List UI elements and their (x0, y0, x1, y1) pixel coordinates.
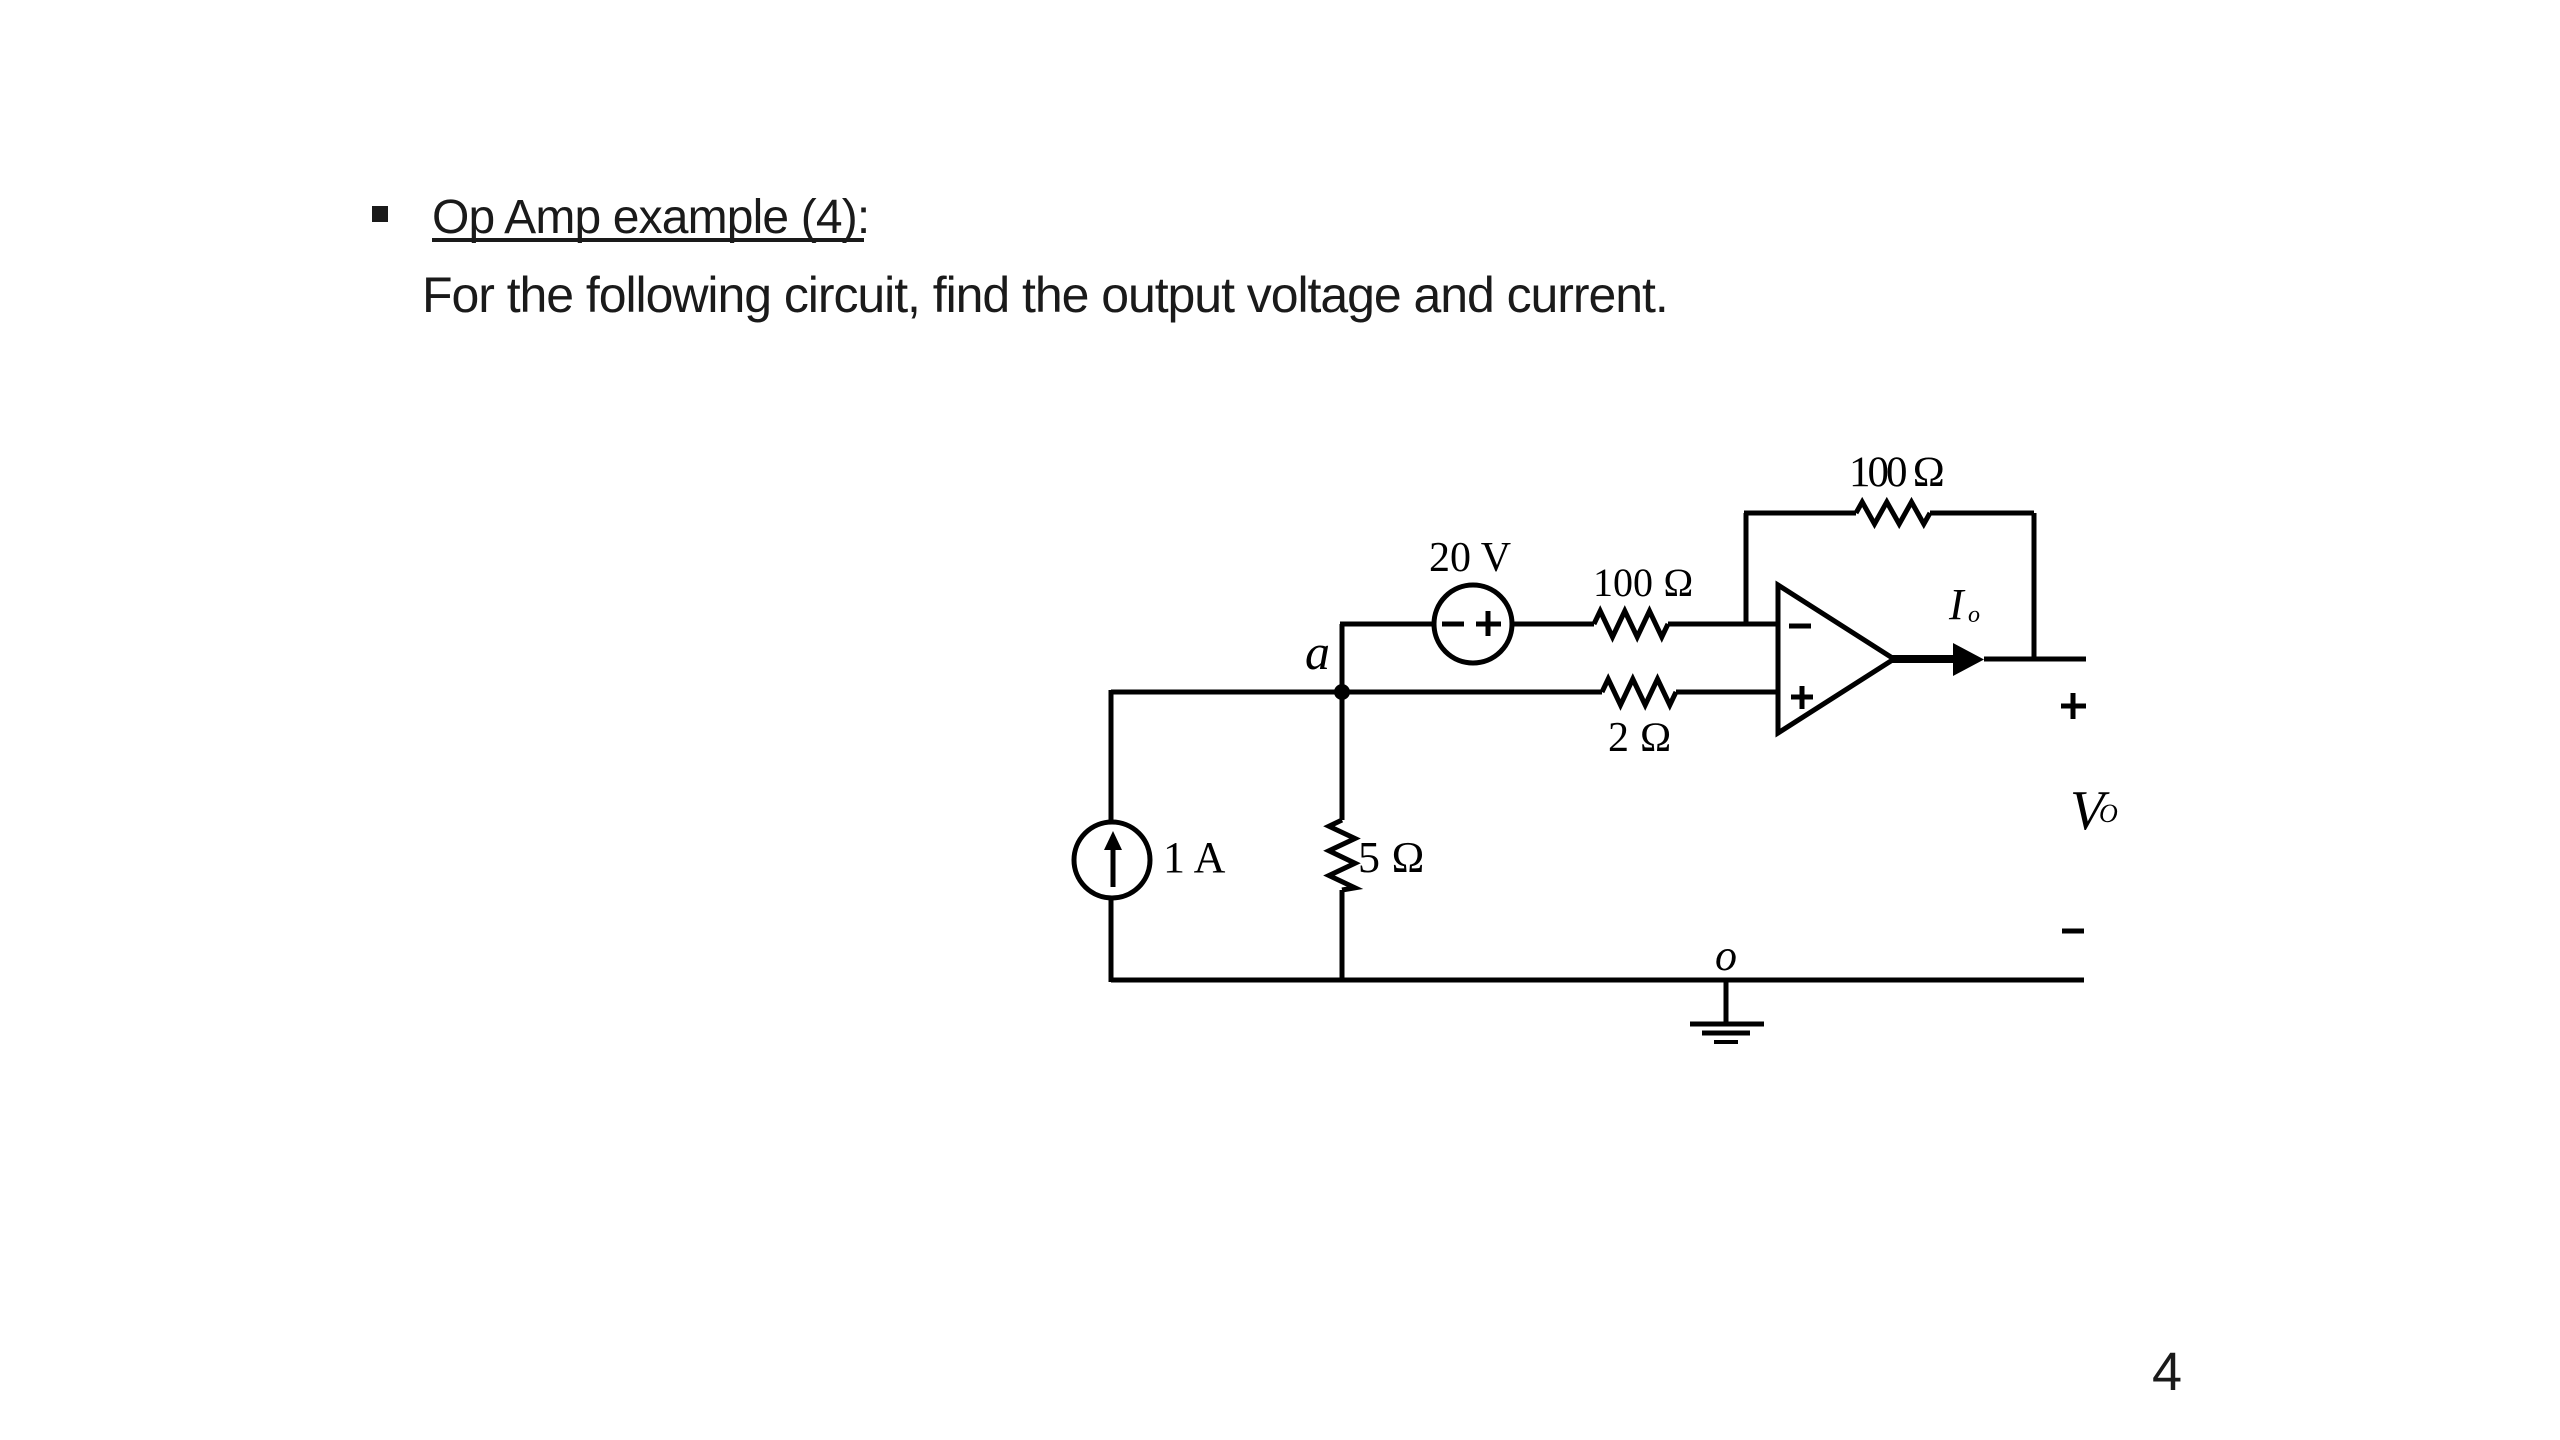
op-amp U1 triangle (1778, 585, 1894, 733)
svg-text:1 A: 1 A (1163, 833, 1226, 882)
voltage source minus sign (1442, 622, 1464, 627)
svg-text:a: a (1305, 624, 1330, 680)
wire: feedback left vertical (1744, 513, 1749, 624)
svg-text:5 Ω: 5 Ω (1358, 833, 1425, 882)
bullet square (372, 206, 388, 222)
wire: left vertical above current source (1109, 690, 1114, 822)
wire: below 5ohm to bottom rail (1340, 890, 1345, 980)
wire: from R2 to op-amp plus input (1676, 690, 1778, 695)
wire: output to right terminal (1984, 657, 2086, 662)
current source arrow (1104, 831, 1122, 887)
svg-text:100 Ω: 100 Ω (1849, 449, 1943, 496)
resistor R4 100ohm feedback zigzag (1856, 502, 1930, 524)
Vo plus terminal sign (2061, 693, 2086, 719)
current source I1 circle (1074, 822, 1150, 898)
body text (422, 270, 1668, 320)
wire: from 20V source to resistor R1 (1512, 622, 1594, 627)
wire: from R1 to op-amp minus input (1668, 622, 1778, 627)
output current arrowhead (1953, 643, 1984, 676)
svg-text:20 V: 20 V (1429, 535, 1511, 581)
ground symbol (1690, 980, 1764, 1042)
wire: feedback top right segment (1930, 511, 2034, 516)
node a junction dot (1334, 684, 1350, 700)
resistor R2 2ohm zigzag (plus input branch) (1602, 679, 1676, 705)
resistor R3 5ohm vertical zigzag (1329, 820, 1355, 890)
wire: feedback right vertical down to output (2032, 513, 2037, 660)
wire: feedback top left segment (1744, 511, 1856, 516)
Vo minus terminal sign (2062, 929, 2084, 934)
wire: top-left horizontal from left branch to node a (1111, 690, 1342, 695)
op-amp minus input sign (1789, 624, 1811, 629)
voltage source plus sign (1476, 611, 1501, 636)
wire: vertical from node a up to minus branch (1340, 624, 1345, 692)
svg-text:2 Ω: 2 Ω (1608, 715, 1672, 761)
page number 4 (2152, 1346, 2182, 1398)
resistor R1 100ohm zigzag (minus input branch) (1594, 611, 1668, 637)
resistor R3 5ohm branch wire upper (1340, 692, 1345, 820)
svg-text:o: o (1715, 931, 1737, 980)
wire: left vertical below current source (1109, 898, 1114, 982)
svg-text:100 Ω: 100 Ω (1593, 560, 1694, 605)
voltage source V1 20V circle (1434, 585, 1512, 663)
title underline (432, 238, 864, 242)
svg-text:o: o (1968, 602, 1980, 628)
wire: bottom horizontal rail (1111, 978, 2084, 983)
svg-text:O: O (2099, 799, 2118, 828)
output thick shaft from op-amp apex (1892, 655, 1953, 663)
title: Op Amp example (4): (432, 194, 869, 242)
svg-text:I: I (1948, 580, 1966, 629)
wire: from corner to 20V source (1340, 622, 1434, 627)
wire: plus branch from node a to resistor R2 (1342, 690, 1602, 695)
op-amp plus input sign (1791, 686, 1813, 709)
